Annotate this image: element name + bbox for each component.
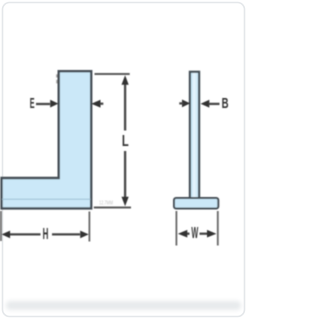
svg-text:12.7MM: 12.7MM [99, 200, 113, 207]
dimension E arrow right (points left at blade right edge) [91, 100, 100, 108]
blade (side view) [190, 72, 199, 199]
dimension W arrow left (points left) [178, 230, 187, 238]
svg-text:H: H [43, 225, 49, 243]
dimension B arrow left tail [179, 102, 183, 104]
faint bottom shadow band [6, 301, 241, 310]
faint card border [3, 3, 245, 317]
dimension H line right segment [52, 233, 80, 235]
dimension L line lower segment [124, 151, 126, 203]
dimension E arrow left (points right at blade left edge) [50, 100, 58, 108]
dimension E arrow right tail [100, 103, 103, 105]
svg-text:W: W [191, 224, 198, 242]
svg-text:B: B [222, 95, 229, 112]
dimension W line right segment [200, 233, 209, 235]
dimension L line upper segment [124, 78, 126, 131]
dimension L extension line top [95, 73, 130, 75]
dimension L extension line bottom [94, 207, 131, 209]
dimension L arrow up [122, 75, 129, 85]
dimension H arrow left (points left) [2, 231, 11, 239]
dimension B arrow right (points left at side-view blade right edge) [201, 100, 210, 108]
dimension H extension line right [88, 212, 90, 242]
square body (front view L-shape) [2, 71, 92, 208]
dimension H line left segment [10, 233, 41, 235]
dimension E leader line [36, 103, 50, 105]
svg-text:L: L [122, 132, 129, 149]
svg-text:E: E [30, 97, 35, 112]
dimension B leader line [209, 103, 220, 105]
dimension W extension line right [217, 211, 219, 246]
base inner edge line (front view) [2, 198, 91, 200]
dimension L arrow down [122, 197, 129, 207]
dimension B arrow left (points right at side-view blade left edge) [182, 100, 190, 108]
dimension W arrow right (points right) [207, 230, 216, 238]
stock base (side view) [174, 198, 218, 209]
dimension W extension line left [175, 211, 177, 246]
stray mark lower near blade edge [56, 80, 58, 84]
dimension H extension line left [0, 211, 2, 241]
dimension H arrow right (points right) [80, 231, 89, 239]
stray mark upper near blade edge [56, 74, 58, 77]
dimension W line left segment [187, 233, 190, 235]
